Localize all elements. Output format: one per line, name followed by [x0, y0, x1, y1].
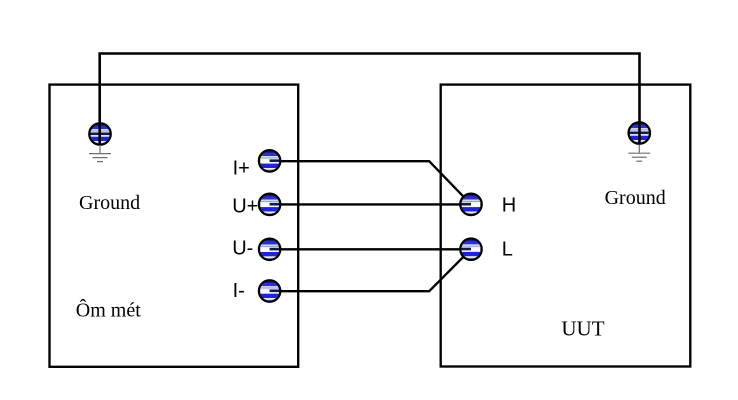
label L	[502, 238, 513, 260]
UUT box	[441, 85, 691, 367]
svg-text:UUT: UUT	[561, 316, 604, 340]
label I-	[233, 280, 245, 302]
wire I- to L	[270, 249, 472, 291]
label Ground (UUT)	[605, 187, 666, 209]
wire U+ to H	[270, 203, 472, 205]
ground symbol (UUT)	[628, 145, 650, 162]
label UUT	[561, 316, 604, 340]
svg-text:I+: I+	[233, 157, 250, 179]
svg-text:U+: U+	[232, 195, 258, 217]
svg-text:I-: I-	[233, 280, 245, 302]
ground terminal (ohmmeter)	[89, 123, 110, 144]
svg-text:Ôm mét: Ôm mét	[76, 298, 141, 322]
svg-text:U-: U-	[232, 238, 253, 260]
wire I+ to H	[270, 161, 472, 204]
terminal H	[460, 194, 481, 215]
terminal L	[460, 239, 481, 260]
terminal U-	[259, 239, 280, 260]
wire: ground link between chassis grounds	[100, 54, 640, 146]
terminal I+	[259, 150, 280, 171]
label I+	[233, 157, 250, 179]
label U+	[232, 195, 258, 217]
ohmmeter box (Ôm mét)	[50, 85, 299, 367]
svg-text:H: H	[502, 195, 516, 217]
svg-text:Ground: Ground	[605, 187, 666, 209]
svg-text:L: L	[502, 238, 513, 260]
label U-	[232, 238, 253, 260]
wire U- to L	[270, 248, 472, 250]
label Ground (ohmmeter)	[79, 192, 140, 214]
ground terminal (UUT)	[629, 122, 650, 143]
label Ôm mét	[76, 298, 141, 322]
terminal I-	[259, 280, 280, 301]
label H	[502, 195, 516, 217]
svg-text:Ground: Ground	[79, 192, 140, 214]
ground symbol (ohmmeter)	[89, 145, 111, 162]
terminal U+	[259, 194, 280, 215]
